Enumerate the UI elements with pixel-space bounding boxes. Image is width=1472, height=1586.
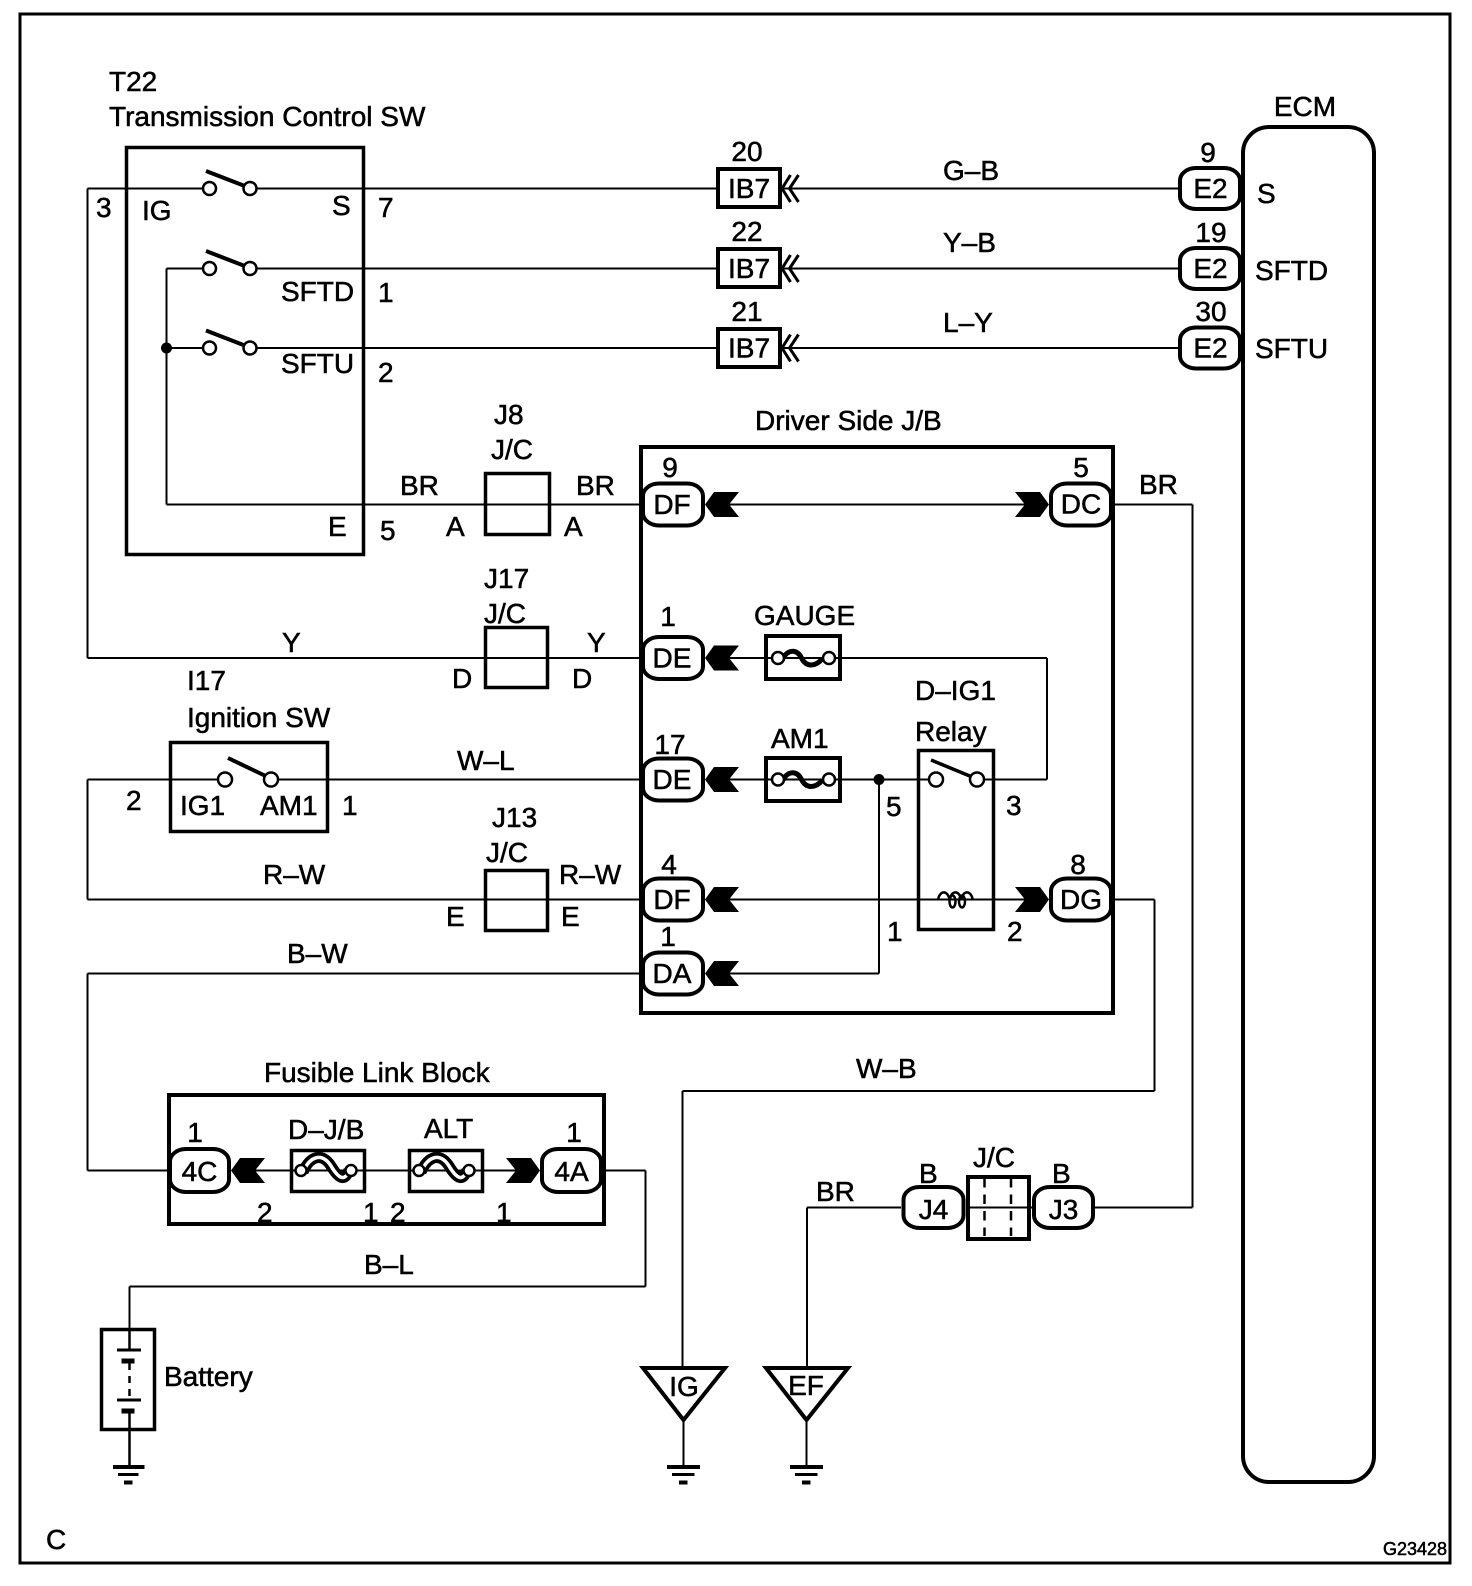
svg-text:SFTU: SFTU [1255, 333, 1328, 364]
svg-text:IG1: IG1 [180, 790, 225, 821]
svg-text:20: 20 [731, 136, 762, 167]
svg-text:DA: DA [653, 958, 692, 989]
svg-text:Fusible Link Block: Fusible Link Block [264, 1057, 491, 1088]
svg-text:5: 5 [886, 791, 902, 822]
svg-text:J4: J4 [919, 1194, 949, 1225]
svg-text:2: 2 [390, 1197, 406, 1228]
svg-text:22: 22 [731, 216, 762, 247]
svg-text:9: 9 [1200, 137, 1216, 168]
svg-text:4A: 4A [554, 1156, 589, 1187]
svg-text:2: 2 [378, 357, 394, 388]
svg-text:E: E [328, 511, 347, 542]
svg-text:EF: EF [788, 1370, 824, 1401]
svg-text:30: 30 [1195, 296, 1226, 327]
svg-text:2: 2 [126, 785, 142, 816]
svg-text:S: S [332, 190, 351, 221]
svg-text:1: 1 [660, 921, 676, 952]
svg-text:D–J/B: D–J/B [288, 1114, 364, 1145]
svg-text:DF: DF [653, 884, 690, 915]
svg-text:AM1: AM1 [260, 790, 318, 821]
svg-text:B–W: B–W [287, 938, 348, 969]
svg-text:7: 7 [378, 192, 394, 223]
svg-text:W–B: W–B [856, 1053, 917, 1084]
svg-text:17: 17 [654, 729, 685, 760]
svg-text:B: B [1052, 1158, 1071, 1189]
svg-text:SFTD: SFTD [281, 276, 354, 307]
svg-text:9: 9 [662, 452, 678, 483]
svg-text:AM1: AM1 [771, 723, 829, 754]
svg-text:IG: IG [669, 1371, 699, 1402]
svg-text:SFTD: SFTD [1255, 255, 1328, 286]
svg-text:C: C [46, 1524, 66, 1555]
svg-text:DE: DE [653, 764, 692, 795]
svg-text:1: 1 [887, 916, 903, 947]
svg-text:A: A [446, 511, 465, 542]
svg-text:Y: Y [587, 627, 606, 658]
svg-text:1: 1 [496, 1197, 512, 1228]
svg-text:1: 1 [378, 277, 394, 308]
svg-text:J3: J3 [1049, 1194, 1079, 1225]
svg-text:D: D [452, 663, 472, 694]
svg-text:1: 1 [363, 1197, 379, 1228]
svg-text:1: 1 [566, 1117, 582, 1148]
svg-text:E2: E2 [1193, 253, 1227, 284]
svg-text:3: 3 [96, 192, 112, 223]
svg-text:5: 5 [380, 515, 396, 546]
svg-text:Y–B: Y–B [943, 227, 996, 258]
svg-text:1: 1 [342, 790, 358, 821]
svg-text:BR: BR [1139, 469, 1178, 500]
svg-text:B–L: B–L [364, 1249, 414, 1280]
svg-text:8: 8 [1070, 849, 1086, 880]
svg-text:Ignition SW: Ignition SW [187, 702, 331, 733]
svg-text:E2: E2 [1193, 173, 1227, 204]
svg-text:J/C: J/C [973, 1142, 1015, 1173]
svg-text:I17: I17 [187, 665, 226, 696]
svg-text:J8: J8 [494, 399, 524, 430]
svg-text:J/C: J/C [484, 598, 526, 629]
svg-text:DC: DC [1061, 489, 1101, 520]
svg-text:B: B [919, 1158, 938, 1189]
svg-text:D–IG1: D–IG1 [915, 675, 996, 706]
svg-text:J17: J17 [484, 563, 529, 594]
svg-text:W–L: W–L [457, 745, 515, 776]
svg-text:L–Y: L–Y [943, 307, 993, 338]
svg-text:E2: E2 [1193, 333, 1227, 364]
svg-text:E: E [446, 901, 465, 932]
svg-text:4C: 4C [182, 1156, 218, 1187]
svg-text:J13: J13 [492, 802, 537, 833]
svg-text:DF: DF [653, 489, 690, 520]
svg-text:IB7: IB7 [728, 253, 770, 284]
svg-text:BR: BR [576, 470, 615, 501]
svg-text:R–W: R–W [559, 859, 622, 890]
svg-text:SFTU: SFTU [281, 348, 354, 379]
svg-text:E: E [561, 901, 580, 932]
svg-text:J/C: J/C [486, 837, 528, 868]
svg-text:1: 1 [660, 601, 676, 632]
svg-text:DG: DG [1060, 884, 1102, 915]
svg-text:D: D [572, 663, 592, 694]
svg-text:2: 2 [1007, 916, 1023, 947]
svg-text:T22: T22 [109, 66, 157, 97]
svg-text:DE: DE [653, 643, 692, 674]
svg-text:1: 1 [187, 1117, 203, 1148]
svg-text:Y: Y [282, 627, 301, 658]
svg-text:BR: BR [400, 470, 439, 501]
svg-text:A: A [564, 511, 583, 542]
svg-text:BR: BR [816, 1176, 855, 1207]
svg-text:5: 5 [1073, 452, 1089, 483]
svg-text:3: 3 [1006, 790, 1022, 821]
svg-text:IG: IG [142, 195, 172, 226]
svg-text:2: 2 [257, 1197, 273, 1228]
svg-text:ECM: ECM [1274, 91, 1336, 122]
svg-text:IB7: IB7 [728, 173, 770, 204]
svg-text:ALT: ALT [424, 1113, 473, 1144]
svg-text:GAUGE: GAUGE [754, 600, 855, 631]
svg-text:J/C: J/C [491, 434, 533, 465]
svg-text:Transmission Control SW: Transmission Control SW [109, 101, 426, 132]
svg-text:R–W: R–W [263, 859, 326, 890]
svg-text:Driver Side J/B: Driver Side J/B [755, 405, 942, 436]
svg-text:4: 4 [661, 849, 677, 880]
svg-text:21: 21 [731, 296, 762, 327]
svg-text:G–B: G–B [943, 155, 999, 186]
svg-text:Battery: Battery [164, 1361, 253, 1392]
svg-text:IB7: IB7 [728, 333, 770, 364]
svg-text:S: S [1257, 178, 1276, 209]
svg-text:Relay: Relay [915, 716, 987, 747]
svg-text:G23428: G23428 [1383, 1539, 1447, 1559]
svg-text:19: 19 [1195, 217, 1226, 248]
